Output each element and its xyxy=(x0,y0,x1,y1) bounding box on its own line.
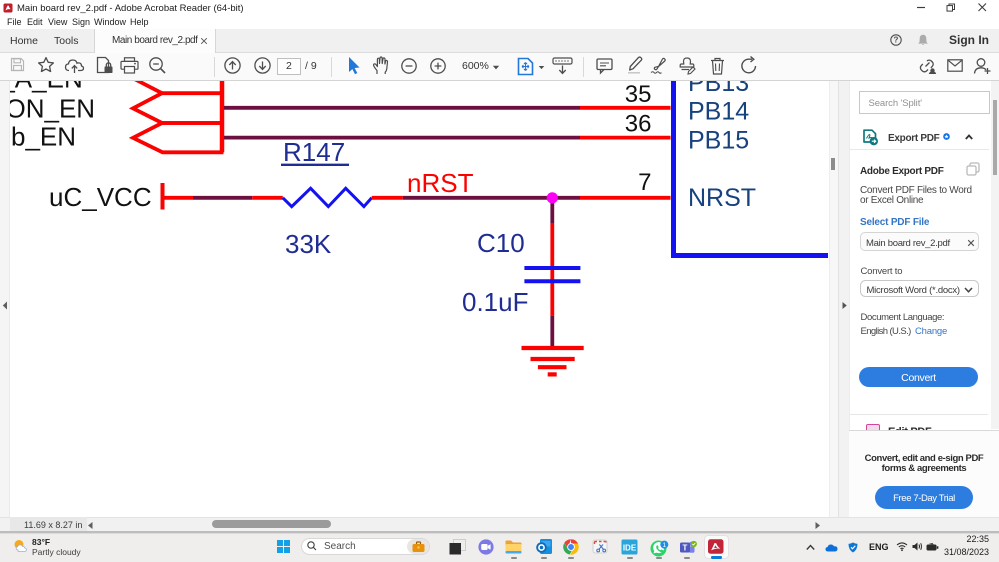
page lock xyxy=(96,56,113,74)
IDE xyxy=(621,539,638,555)
port ON_EN xyxy=(133,93,222,123)
page down xyxy=(254,57,271,74)
node junction xyxy=(547,192,558,203)
scroll tool xyxy=(552,57,573,75)
Adobe Export PDF heading xyxy=(860,166,944,177)
highlight pen xyxy=(626,56,644,75)
Convert button xyxy=(859,367,978,388)
search box xyxy=(859,91,990,114)
printer xyxy=(120,57,139,74)
promo card xyxy=(849,430,999,534)
wire uC_VCC to resistor xyxy=(163,196,193,200)
chrome xyxy=(563,539,579,555)
pin 35 stub xyxy=(580,106,671,110)
IC U? border xyxy=(674,81,829,256)
cloud upload xyxy=(64,57,85,74)
weather xyxy=(13,538,29,554)
search pill xyxy=(301,538,430,555)
wire resistor to junction xyxy=(372,196,403,200)
Convert to xyxy=(861,266,903,277)
envelope xyxy=(947,59,963,72)
magnifier minus xyxy=(148,56,167,75)
whatsapp xyxy=(650,539,669,558)
speaker xyxy=(912,542,923,551)
fit page (blue) xyxy=(517,57,534,76)
page up xyxy=(224,57,241,74)
port bar xyxy=(220,81,225,152)
svg-text:PB14: PB14 xyxy=(688,98,749,126)
white canvas xyxy=(10,81,829,517)
uC_VCC port tick xyxy=(161,183,165,210)
svg-text:33K: 33K xyxy=(285,229,332,259)
right panel gutter xyxy=(838,81,849,517)
outlook xyxy=(536,539,552,554)
svg-text:T: T xyxy=(683,544,688,553)
comment xyxy=(596,58,613,74)
save (disabled) xyxy=(10,57,25,72)
trash xyxy=(710,57,725,75)
capacitor C10 xyxy=(524,266,580,270)
pen/battery device xyxy=(926,543,939,551)
file explorer xyxy=(505,540,522,554)
svg-text:0.1uF: 0.1uF xyxy=(462,287,529,317)
port PA_EN (partial) xyxy=(134,79,163,94)
svg-text:R147: R147 xyxy=(283,137,345,167)
svg-text:NRST: NRST xyxy=(688,184,756,212)
svg-text:?: ? xyxy=(894,35,899,44)
wire junction down to capacitor xyxy=(550,200,554,223)
zoom out xyxy=(401,58,417,74)
teams xyxy=(679,540,698,556)
purple camera app xyxy=(478,539,494,555)
svg-text:IDE: IDE xyxy=(623,544,637,553)
document vertical scrollbar xyxy=(829,81,838,517)
svg-text:PB15: PB15 xyxy=(688,127,749,155)
svg-text:C10: C10 xyxy=(477,228,525,258)
acrobat (active) xyxy=(704,535,729,560)
schematic drawing xyxy=(0,81,829,517)
sidebar scrollbar xyxy=(991,81,999,429)
Select PDF File link xyxy=(860,217,929,228)
snipping tool xyxy=(592,539,609,555)
wire b_EN net (maroon) xyxy=(224,136,580,140)
divider xyxy=(331,57,332,77)
person plus xyxy=(973,57,991,75)
ground xyxy=(522,346,584,350)
zoom in xyxy=(430,58,446,74)
defender shield xyxy=(848,542,858,553)
zoom level xyxy=(462,60,489,72)
onedrive xyxy=(825,543,838,552)
overlapping windows xyxy=(449,539,466,555)
ENG xyxy=(869,542,889,552)
pin 7 stub xyxy=(580,196,671,200)
star xyxy=(37,56,55,74)
port b_EN xyxy=(133,123,224,152)
start xyxy=(277,540,290,553)
pin 36 stub xyxy=(580,136,671,140)
tray chevron xyxy=(806,544,815,551)
svg-text:nRST: nRST xyxy=(407,168,474,198)
wire junction to pin 7 xyxy=(556,196,580,200)
divider xyxy=(583,57,584,77)
svg-text:ON_EN: ON_EN xyxy=(6,94,96,124)
left collapsed panel strip xyxy=(0,81,10,517)
svg-text:1: 1 xyxy=(662,542,666,549)
file box xyxy=(860,232,979,251)
export stamp xyxy=(678,57,697,75)
Edit PDF row (clipped by promo card) xyxy=(849,420,999,430)
rotate xyxy=(740,57,758,75)
resistor R147 xyxy=(283,188,372,206)
cursor tool (blue) xyxy=(347,56,361,75)
svg-text:b_EN: b_EN xyxy=(11,122,76,152)
Export PDF header xyxy=(862,129,879,146)
svg-text:35: 35 xyxy=(625,81,652,108)
wire ON_EN net (maroon) xyxy=(224,106,580,110)
wifi xyxy=(896,542,908,551)
Document language xyxy=(861,312,945,323)
sign pen xyxy=(649,57,669,74)
wire capacitor to ground xyxy=(550,315,554,346)
clock xyxy=(949,534,989,544)
page number box xyxy=(277,58,301,76)
share link xyxy=(918,58,937,74)
hand tool xyxy=(372,56,390,75)
divider xyxy=(214,57,215,77)
svg-text:36: 36 xyxy=(625,111,652,138)
svg-text:7: 7 xyxy=(638,169,651,196)
svg-text:uC_VCC: uC_VCC xyxy=(49,182,152,212)
